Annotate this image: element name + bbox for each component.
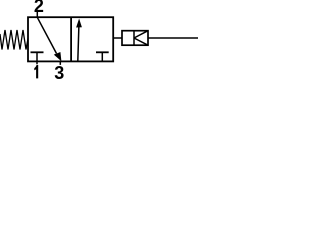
flow path arrow 2 to 3 (left box diagonal) [37, 17, 61, 61]
svg-text:3: 3 [54, 63, 64, 83]
valve body outline (two position boxes) [28, 17, 113, 61]
blocked port 1 symbol (left box T) [31, 52, 44, 61]
spring (return spring, left side) [0, 30, 28, 50]
wire: valve to pilot box [113, 37, 122, 39]
port 2 stub (top) [36, 12, 38, 17]
pilot actuator box [122, 31, 148, 46]
background [0, 0, 200, 83]
port 1 stub (bottom left) [36, 61, 38, 64]
pilot triangle symbol (vertical bar + diagonals) [134, 31, 148, 46]
wire: pilot box to right end [148, 37, 198, 39]
flow path arrow 1 to 2 (right box vertical) [76, 19, 82, 62]
svg-text:2: 2 [34, 0, 44, 16]
blocked port 3 symbol (right box T) [96, 52, 109, 61]
port 3 stub (bottom right) [59, 61, 61, 65]
port label 1 [34, 65, 38, 78]
divider between position boxes [70, 17, 72, 61]
